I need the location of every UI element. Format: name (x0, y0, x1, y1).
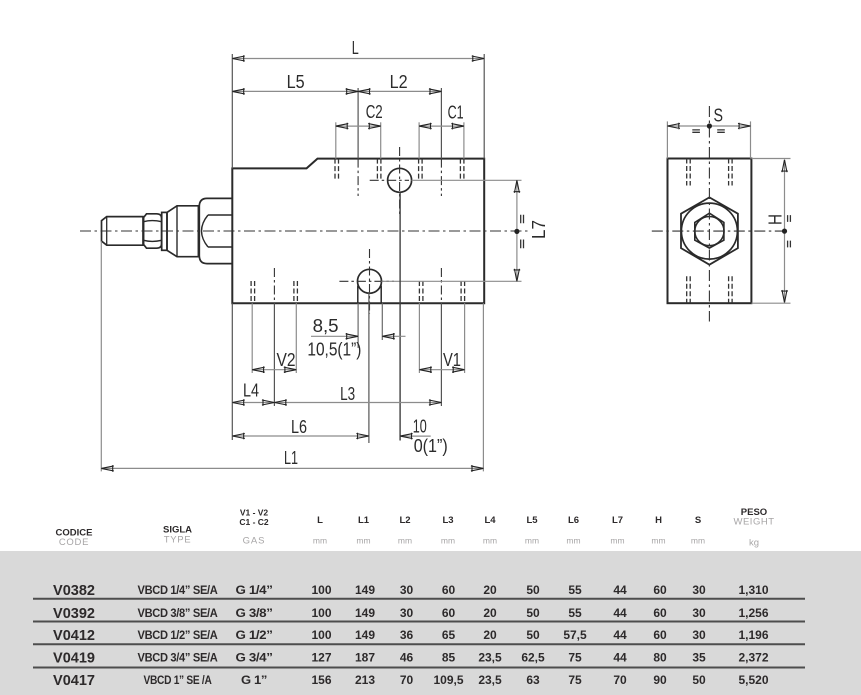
svg-text:5,520: 5,520 (738, 673, 768, 687)
svg-text:VBCD 1/4” SE/A: VBCD 1/4” SE/A (138, 583, 219, 597)
svg-text:30: 30 (692, 628, 706, 642)
table header texts (56, 507, 775, 549)
svg-text:mm: mm (313, 536, 327, 546)
svg-text:GAS: GAS (243, 536, 266, 547)
svg-text:30: 30 (400, 583, 414, 597)
svg-text:75: 75 (568, 651, 582, 665)
svg-text:VBCD 1” SE /A: VBCD 1” SE /A (144, 673, 213, 687)
svg-text:100: 100 (311, 628, 331, 642)
port drain bottom hole (358, 269, 382, 293)
inner hex socket (695, 213, 724, 248)
svg-text:L: L (352, 38, 359, 58)
svg-text:149: 149 (355, 583, 375, 597)
svg-text:VBCD 3/8” SE/A: VBCD 3/8” SE/A (138, 606, 219, 620)
svg-text:V1 - V2: V1 - V2 (240, 508, 269, 518)
svg-text:100: 100 (311, 583, 331, 597)
svg-text:mm: mm (441, 536, 455, 546)
svg-text:1,310: 1,310 (738, 583, 768, 597)
svg-text:L2: L2 (390, 72, 408, 92)
svg-text:20: 20 (483, 583, 497, 597)
svg-text:L5: L5 (287, 72, 305, 92)
extension lines (101, 54, 521, 471)
svg-text:L: L (317, 515, 323, 526)
svg-text:G 1/4”: G 1/4” (236, 583, 273, 597)
svg-text:kg: kg (749, 538, 759, 549)
center axis (side view) (80, 230, 529, 232)
svg-text:mm: mm (610, 536, 624, 546)
svg-text:S: S (695, 515, 701, 526)
svg-text:L6: L6 (568, 515, 579, 526)
svg-text:mm: mm (398, 536, 412, 546)
svg-text:G 3/8”: G 3/8” (236, 606, 273, 620)
svg-text:mm: mm (483, 536, 497, 546)
svg-text:V0382: V0382 (53, 582, 95, 599)
svg-text:20: 20 (483, 606, 497, 620)
hole centerlines (274, 147, 441, 314)
svg-text:44: 44 (613, 651, 627, 665)
svg-text:L2: L2 (399, 515, 410, 526)
end view extension lines (667, 121, 790, 303)
hidden thread lines, top ports (251, 159, 465, 304)
dimension V1 (419, 369, 464, 371)
svg-text:149: 149 (355, 628, 375, 642)
end view body rectangle (668, 159, 752, 304)
nut chamfer circle (681, 203, 737, 259)
svg-text:10,5(1”): 10,5(1”) (307, 339, 361, 359)
big hex nut (end view) (681, 197, 738, 264)
svg-text:L5: L5 (526, 515, 538, 526)
svg-text:8,5: 8,5 (313, 316, 339, 336)
table row separators (33, 599, 805, 668)
svg-text:50: 50 (526, 606, 540, 620)
svg-text:L1: L1 (284, 448, 298, 468)
dimension L (232, 58, 484, 60)
svg-text:50: 50 (526, 583, 540, 597)
svg-text:mm: mm (356, 536, 370, 546)
svg-text:36: 36 (400, 628, 414, 642)
svg-text:V2: V2 (277, 350, 296, 370)
locknut (small hex) (144, 214, 162, 248)
svg-text:55: 55 (568, 583, 582, 597)
svg-text:63: 63 (526, 673, 540, 687)
svg-text:G 3/4”: G 3/4” (236, 651, 273, 665)
svg-text:C1 - C2: C1 - C2 (239, 517, 269, 527)
svg-text:35: 35 (692, 651, 706, 665)
svg-text:62,5: 62,5 (521, 651, 545, 665)
svg-text:187: 187 (355, 651, 375, 665)
svg-text:60: 60 (653, 628, 667, 642)
dimension L6 (232, 435, 369, 437)
svg-text:mm: mm (566, 536, 580, 546)
svg-text:44: 44 (613, 606, 627, 620)
end view hidden port lines (687, 159, 732, 304)
svg-text:213: 213 (355, 673, 375, 687)
svg-text:70: 70 (613, 673, 627, 687)
svg-text:VBCD 3/4” SE/A: VBCD 3/4” SE/A (138, 651, 219, 665)
svg-text:50: 50 (526, 628, 540, 642)
svg-text:L1: L1 (358, 515, 370, 526)
svg-text:10: 10 (413, 417, 427, 437)
end view centerlines (652, 106, 789, 322)
valve body outline (side view) (232, 159, 484, 304)
washer (162, 212, 167, 250)
svg-text:VBCD 1/2” SE/A: VBCD 1/2” SE/A (138, 628, 219, 642)
svg-text:65: 65 (442, 628, 456, 642)
svg-text:60: 60 (653, 606, 667, 620)
dimension H (vertical) (784, 160, 786, 303)
svg-text:L7: L7 (529, 220, 549, 239)
svg-text:V0419: V0419 (53, 650, 95, 667)
svg-text:H: H (766, 214, 786, 225)
svg-text:80: 80 (653, 651, 667, 665)
inner thread circle (695, 217, 724, 246)
svg-text:TYPE: TYPE (164, 535, 192, 546)
dimension C2 (336, 125, 381, 127)
dimension V2 (252, 369, 296, 371)
svg-text:90: 90 (653, 673, 667, 687)
svg-text:109,5: 109,5 (433, 673, 463, 687)
svg-text:50: 50 (692, 673, 706, 687)
svg-text:CODE: CODE (59, 537, 89, 548)
svg-text:V0412: V0412 (53, 627, 95, 644)
dimension L3 (274, 402, 441, 404)
svg-text:L6: L6 (291, 417, 307, 437)
svg-text:23,5: 23,5 (478, 673, 502, 687)
svg-text:L4: L4 (243, 381, 259, 401)
adjustment screw threaded stem (102, 217, 144, 246)
svg-text:60: 60 (442, 583, 456, 597)
svg-text:156: 156 (311, 673, 331, 687)
svg-text:60: 60 (442, 606, 456, 620)
dimension L7 (vertical) (516, 180, 518, 281)
svg-text:C2: C2 (366, 102, 383, 122)
svg-text:46: 46 (400, 651, 414, 665)
svg-text:S: S (714, 105, 724, 125)
svg-text:100: 100 (311, 606, 331, 620)
hidden thread lines, bottom ports (251, 281, 255, 303)
dimension 8,5 / 10,5(1") offset (311, 335, 406, 337)
dimension L2 (358, 90, 441, 92)
svg-text:mm: mm (691, 536, 705, 546)
svg-text:55: 55 (568, 606, 582, 620)
svg-text:V0417: V0417 (53, 672, 95, 689)
dimension 10 / 0(1") offset (400, 435, 431, 437)
svg-text:75: 75 (568, 673, 582, 687)
svg-text:C1: C1 (448, 103, 464, 123)
svg-text:mm: mm (651, 536, 665, 546)
svg-text:30: 30 (692, 583, 706, 597)
svg-text:20: 20 (483, 628, 497, 642)
svg-text:V1: V1 (443, 350, 461, 370)
svg-text:30: 30 (692, 606, 706, 620)
svg-text:57,5: 57,5 (563, 628, 587, 642)
svg-text:mm: mm (525, 536, 539, 546)
svg-text:85: 85 (442, 651, 456, 665)
table data rows (53, 582, 769, 689)
svg-text:149: 149 (355, 606, 375, 620)
svg-text:44: 44 (613, 583, 627, 597)
dimension L4 (232, 402, 274, 404)
svg-text:V0392: V0392 (53, 605, 95, 622)
svg-text:L4: L4 (484, 515, 496, 526)
svg-text:23,5: 23,5 (478, 651, 502, 665)
svg-text:60: 60 (653, 583, 667, 597)
svg-text:L3: L3 (442, 515, 453, 526)
svg-text:H: H (655, 515, 662, 526)
svg-text:WEIGHT: WEIGHT (734, 517, 775, 528)
svg-text:0(1”): 0(1”) (414, 436, 448, 456)
dimension L5 (232, 90, 358, 92)
svg-text:2,372: 2,372 (738, 651, 768, 665)
svg-text:G 1/2”: G 1/2” (236, 628, 273, 642)
svg-text:L3: L3 (340, 384, 355, 404)
svg-text:127: 127 (311, 651, 331, 665)
dimension S (667, 125, 750, 127)
svg-text:1,196: 1,196 (738, 628, 768, 642)
svg-text:44: 44 (613, 628, 627, 642)
spring housing cylinder (167, 206, 198, 257)
svg-text:G 1”: G 1” (241, 673, 267, 687)
dimension C1 (419, 125, 464, 127)
svg-text:L7: L7 (612, 515, 623, 526)
dimension L1 (101, 467, 483, 469)
svg-text:70: 70 (400, 673, 414, 687)
big hex nut (side view) (199, 198, 232, 263)
port C2 top hole (388, 168, 412, 192)
table body gray band (0, 551, 861, 695)
svg-text:1,256: 1,256 (738, 606, 768, 620)
svg-text:30: 30 (400, 606, 414, 620)
